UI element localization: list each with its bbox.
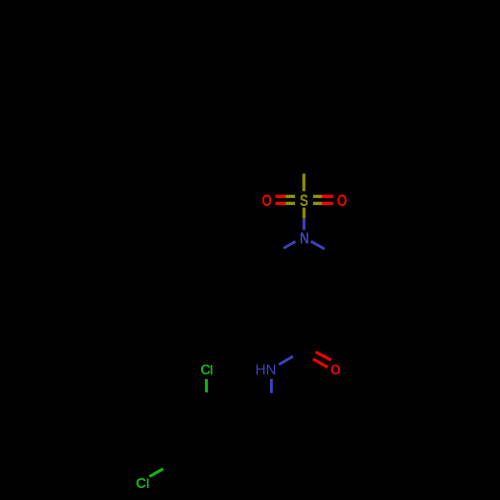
bond S=O left, upper line (red half near O, olive half near S) <box>275 195 285 198</box>
svg-text:l: l <box>146 477 149 491</box>
bond ring C to ortho Cl (green half) <box>205 379 208 392</box>
bond S to N (olive half) <box>303 208 306 219</box>
bond S=O left, lower line <box>275 202 285 205</box>
svg-text:N: N <box>300 231 309 248</box>
svg-text:HN: HN <box>255 363 276 379</box>
svg-text:O: O <box>337 192 347 210</box>
bond S=O right, lower line <box>313 202 322 205</box>
svg-text:l: l <box>210 363 213 377</box>
bond amide N to carbonyl C (blue half) <box>279 356 293 364</box>
bond amide N to CH2 (blue half) <box>270 379 273 393</box>
svg-text:O: O <box>331 362 341 379</box>
bond C=O upper line (red half) <box>316 352 331 360</box>
bond C=O lower line (red half) <box>313 359 328 367</box>
bond phenyl-C to S (sulfur half, olive) <box>302 174 305 192</box>
svg-text:O: O <box>262 192 272 210</box>
svg-text:S: S <box>300 192 309 210</box>
bond N to piperidine C6 (blue half) <box>311 241 325 249</box>
bond S=O right, upper line (olive half near S, red half near O) <box>313 195 322 198</box>
bond N to piperidine C2 (blue half) <box>284 241 296 248</box>
bond S to N (blue half) <box>303 218 306 229</box>
bond ring C to para Cl (green half) <box>150 469 164 477</box>
